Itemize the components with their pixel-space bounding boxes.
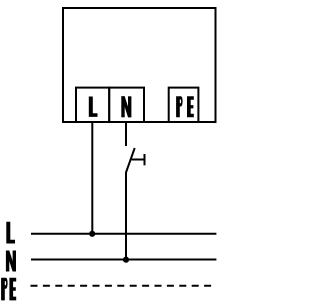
wire from switch down to N bus	[125, 172, 127, 260]
junction dot on L bus	[89, 231, 95, 237]
terminal N label	[121, 96, 131, 117]
terminal PE box	[169, 88, 199, 122]
PE bus line (dashed)	[31, 285, 217, 287]
wire from terminal N down to switch	[125, 122, 127, 146]
switch actuator link	[132, 159, 144, 161]
terminal N box	[109, 88, 144, 122]
PE bus label	[1, 278, 16, 301]
N bus label	[6, 251, 16, 272]
L bus label	[6, 222, 15, 244]
junction dot on N bus	[123, 257, 129, 263]
device box	[63, 8, 216, 122]
wire from terminal L down to L bus	[91, 122, 93, 234]
switch actuator bar	[144, 154, 146, 165]
terminal L label	[89, 97, 98, 117]
switch S1 blade	[126, 148, 135, 173]
terminal L box	[76, 88, 109, 122]
N bus line	[31, 259, 216, 261]
L bus line	[31, 233, 216, 235]
terminal PE label	[176, 96, 194, 117]
